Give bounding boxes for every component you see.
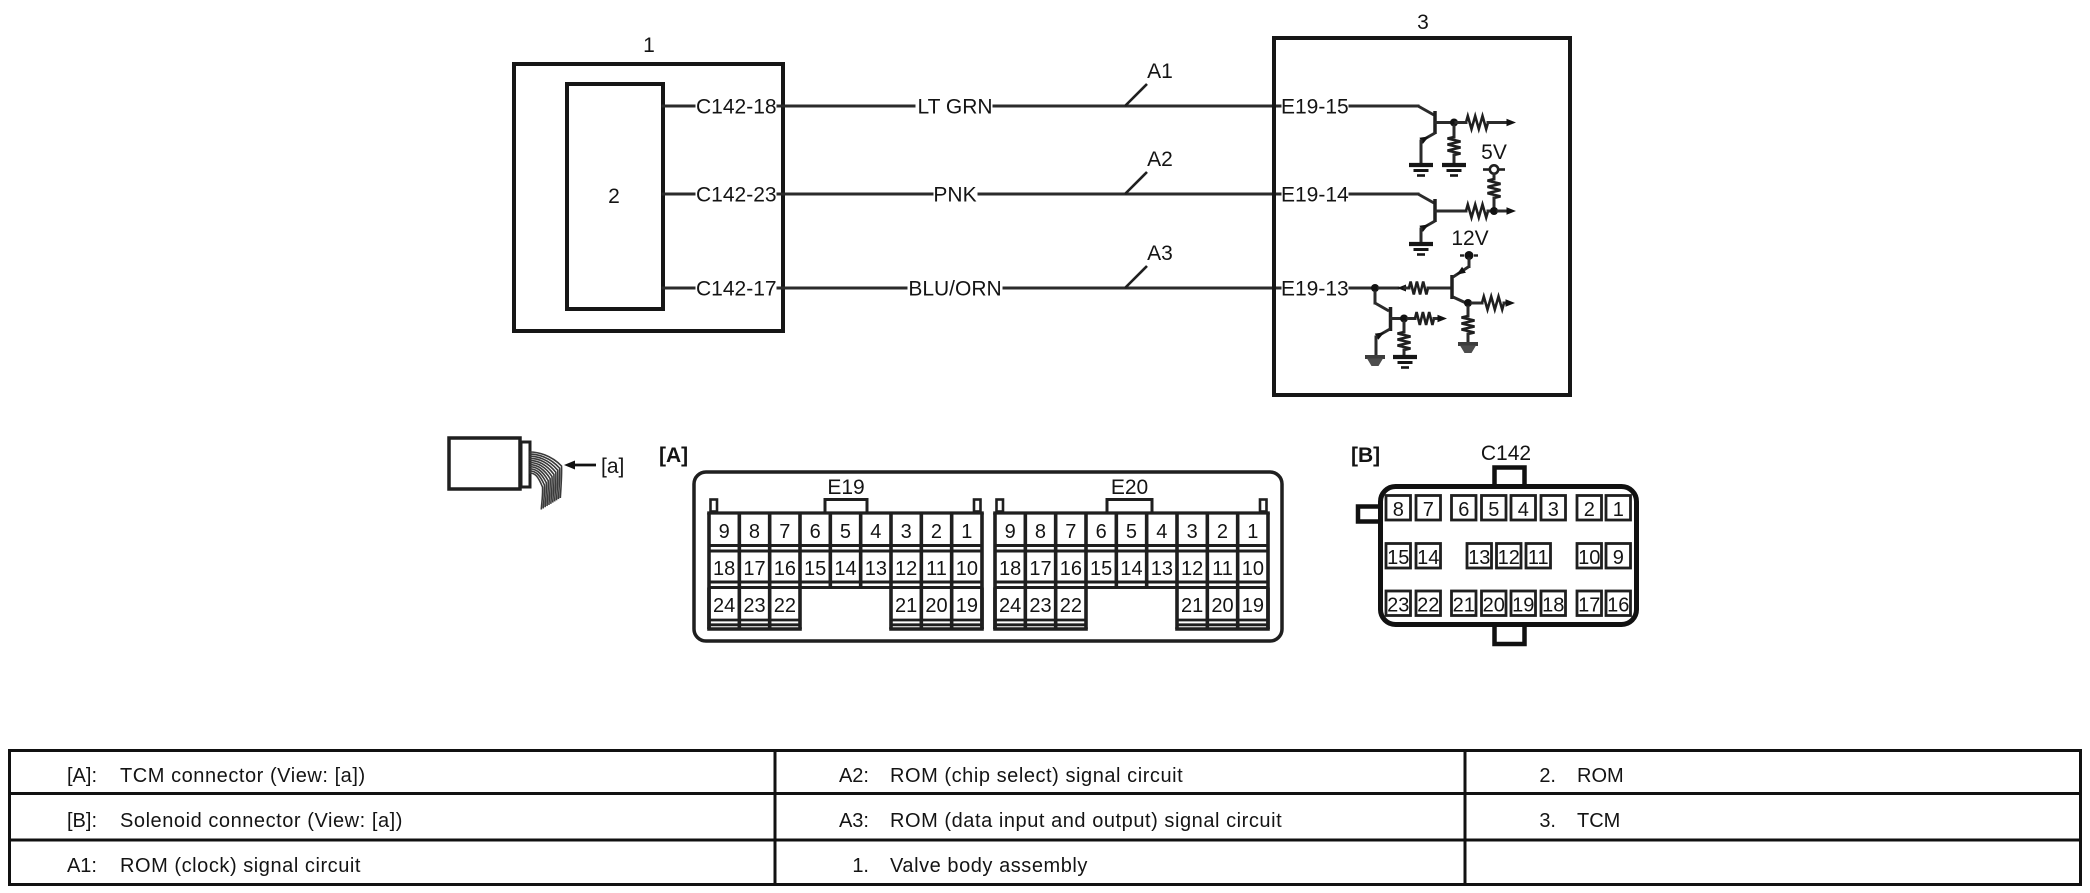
- C142 pin 8: [1386, 496, 1411, 521]
- svg-text:C142-23: C142-23: [696, 184, 777, 207]
- E19 row1 pin numbers: [719, 521, 973, 543]
- pin label C142-23: [696, 184, 777, 207]
- E19 row3 pin numbers: [713, 595, 978, 617]
- transistor Q4: [1375, 307, 1400, 340]
- svg-text:A2: A2: [1147, 148, 1173, 171]
- legend row 1 col 3: [1539, 765, 1623, 787]
- ground R2: [1442, 165, 1466, 176]
- circuit slash A1: [1125, 84, 1147, 106]
- resistor R6: [1472, 297, 1504, 310]
- E20 notch right: [1260, 500, 1267, 512]
- svg-text:PNK: PNK: [933, 184, 976, 207]
- svg-text:3: 3: [1417, 11, 1429, 34]
- node R4 output: [1488, 207, 1498, 215]
- C142 pin 23: [1386, 591, 1411, 616]
- svg-text:5: 5: [1488, 499, 1499, 521]
- wire R8 output arrow: [1434, 315, 1447, 322]
- svg-text:1: 1: [1247, 521, 1258, 543]
- svg-text:BLU/ORN: BLU/ORN: [908, 278, 1001, 301]
- ground Q2 emitter: [1409, 244, 1433, 255]
- label [B]: [1351, 444, 1380, 467]
- svg-text:A2:: A2:: [839, 765, 869, 787]
- svg-text:20: 20: [1483, 594, 1505, 616]
- arrow to [a]: [564, 461, 596, 470]
- wire junction to R5 with arrow: [1379, 285, 1409, 292]
- C142 pin 10: [1577, 544, 1602, 569]
- svg-text:5V: 5V: [1481, 141, 1507, 164]
- svg-text:TCM connector (View: [a]): TCM connector (View: [a]): [120, 765, 366, 787]
- 12V supply dot: [1460, 251, 1478, 260]
- wire bundle: [530, 452, 562, 510]
- svg-text:C142: C142: [1481, 442, 1531, 465]
- C142 bottom tab: [1495, 626, 1525, 644]
- legend row 2 col 1: [67, 810, 403, 832]
- C142 pin 4: [1511, 496, 1536, 521]
- wire 5V to R3: [1493, 174, 1496, 179]
- resistor R9: [1398, 332, 1411, 350]
- svg-text:14: 14: [834, 558, 856, 580]
- C142 pin 2: [1577, 496, 1602, 521]
- legend row 1 col 1: [67, 765, 366, 787]
- svg-text:9: 9: [1613, 547, 1624, 569]
- E20 row3 pin numbers: [999, 595, 1264, 617]
- svg-text:ROM (data input and output) si: ROM (data input and output) signal circu…: [890, 810, 1282, 832]
- svg-text:6: 6: [1458, 499, 1469, 521]
- svg-text:E19-15: E19-15: [1281, 96, 1349, 119]
- svg-text:12V: 12V: [1451, 227, 1488, 250]
- svg-text:1.: 1.: [852, 855, 869, 877]
- svg-text:19: 19: [1242, 595, 1264, 617]
- svg-text:9: 9: [1005, 521, 1016, 543]
- svg-text:22: 22: [1060, 595, 1082, 617]
- C142 left tab: [1358, 507, 1380, 522]
- svg-text:24: 24: [713, 595, 735, 617]
- junction node E19-13: [1371, 284, 1379, 292]
- wire Q3 collector to R7: [1467, 307, 1470, 316]
- svg-text:5: 5: [1126, 521, 1137, 543]
- label E19: [827, 476, 864, 499]
- label 2: [608, 185, 620, 208]
- C142 pin 16: [1606, 591, 1631, 616]
- wire E19-15 to Q1 base: [1350, 106, 1434, 115]
- svg-text:13: 13: [1468, 547, 1490, 569]
- E19 tab: [825, 500, 867, 514]
- C142 pin 5: [1482, 496, 1507, 521]
- wire R1 output arrow: [1488, 119, 1516, 126]
- pin label E19-15: [1281, 96, 1349, 119]
- wire R6 output arrow: [1504, 299, 1515, 307]
- E20 row1 pin numbers: [1005, 521, 1259, 543]
- E19 pin grid outline: [707, 513, 984, 629]
- svg-text:13: 13: [865, 558, 887, 580]
- svg-text:Solenoid connector (View: [a]): Solenoid connector (View: [a]): [120, 810, 403, 832]
- svg-text:3: 3: [901, 521, 912, 543]
- C142 pin 21: [1452, 591, 1477, 616]
- C142 pin 22: [1416, 591, 1441, 616]
- C142 pin 1: [1606, 496, 1631, 521]
- wire node output arrow: [1498, 207, 1516, 215]
- label [a]: [601, 455, 624, 478]
- svg-text:2: 2: [608, 185, 620, 208]
- svg-text:19: 19: [1512, 594, 1534, 616]
- E20 pin grid outline: [993, 513, 1270, 629]
- node Q3 collector: [1464, 299, 1472, 307]
- svg-text:3: 3: [1187, 521, 1198, 543]
- C142 pin 13: [1467, 544, 1492, 569]
- label C142: [1481, 442, 1531, 465]
- 5V supply terminal: [1483, 165, 1505, 173]
- wire R7 to ground: [1467, 334, 1470, 343]
- label 1: [643, 34, 655, 57]
- svg-text:4: 4: [1156, 521, 1167, 543]
- wire C142-18 to wire-color label: [778, 105, 914, 108]
- C142 pin 12: [1497, 544, 1522, 569]
- svg-text:4: 4: [870, 521, 881, 543]
- E19 notch right: [974, 500, 981, 512]
- wire node to R9: [1403, 322, 1406, 332]
- svg-text:17: 17: [743, 558, 765, 580]
- wire color label BLU/ORN: [908, 278, 1001, 301]
- label 3: [1417, 11, 1429, 34]
- E20 notch left: [997, 500, 1004, 512]
- svg-text:1: 1: [961, 521, 972, 543]
- svg-text:17: 17: [1029, 558, 1051, 580]
- svg-text:15: 15: [804, 558, 826, 580]
- svg-text:3.: 3.: [1539, 810, 1556, 832]
- resistor R3: [1488, 179, 1501, 198]
- legend row 1 col 2: [839, 765, 1183, 787]
- svg-text:13: 13: [1151, 558, 1173, 580]
- solenoid connector cap: [521, 442, 530, 487]
- circuit label A3: [1147, 242, 1173, 265]
- svg-text:8: 8: [1393, 499, 1404, 521]
- svg-text:[A]: [A]: [659, 444, 688, 467]
- node Q4 collector: [1400, 315, 1408, 323]
- svg-text:16: 16: [1060, 558, 1082, 580]
- svg-text:18: 18: [713, 558, 735, 580]
- legend row 3 col 1: [67, 855, 361, 877]
- legend row 3 col 2: [852, 855, 1088, 877]
- svg-text:6: 6: [810, 521, 821, 543]
- valve body assembly box 1: [514, 64, 783, 331]
- svg-text:23: 23: [1387, 594, 1409, 616]
- svg-text:23: 23: [1029, 595, 1051, 617]
- svg-text:E20: E20: [1111, 476, 1148, 499]
- transistor Q2: [1419, 199, 1466, 232]
- svg-text:2: 2: [931, 521, 942, 543]
- transistor Q1: [1419, 111, 1452, 144]
- wire Q1 emitter to ground: [1420, 141, 1423, 163]
- svg-text:ROM (clock) signal circuit: ROM (clock) signal circuit: [120, 855, 361, 877]
- C142 pin 14: [1416, 544, 1441, 569]
- wire junction to Q4 base: [1375, 292, 1389, 311]
- pin label C142-18: [696, 96, 777, 119]
- C142 pin 3: [1541, 496, 1566, 521]
- circuit slash A2: [1125, 172, 1147, 194]
- circuit slash A3: [1125, 266, 1147, 288]
- C142 top tab: [1495, 468, 1525, 486]
- E20 tab: [1107, 500, 1152, 514]
- svg-text:4: 4: [1518, 499, 1529, 521]
- svg-text:21: 21: [1181, 595, 1203, 617]
- wire C142-23 to wire-color label: [778, 193, 932, 196]
- ground R9: [1393, 357, 1417, 368]
- svg-text:TCM: TCM: [1577, 810, 1620, 832]
- svg-text:18: 18: [999, 558, 1021, 580]
- svg-text:24: 24: [999, 595, 1021, 617]
- wire C142-17 to wire-color label: [778, 287, 906, 290]
- svg-text:A1: A1: [1147, 60, 1173, 83]
- svg-text:Valve body assembly: Valve body assembly: [890, 855, 1088, 877]
- E19 row2 pin numbers: [713, 558, 978, 580]
- solenoid connector body: [449, 438, 520, 489]
- svg-text:16: 16: [1607, 594, 1629, 616]
- svg-text:5: 5: [840, 521, 851, 543]
- svg-text:14: 14: [1120, 558, 1142, 580]
- svg-text:11: 11: [1212, 558, 1233, 580]
- pin label E19-13: [1281, 278, 1349, 301]
- svg-text:E19-14: E19-14: [1281, 184, 1349, 207]
- label [A]: [659, 444, 688, 467]
- svg-text:15: 15: [1090, 558, 1112, 580]
- svg-text:[B]: [B]: [1351, 444, 1380, 467]
- svg-text:19: 19: [956, 595, 978, 617]
- svg-text:10: 10: [956, 558, 978, 580]
- solenoid connector housing C142: [1381, 487, 1637, 625]
- wire BLU/ORN to TCM: [1004, 287, 1280, 290]
- ground R7: [1458, 344, 1478, 353]
- svg-text:12: 12: [895, 558, 917, 580]
- legend row 2 col 3: [1539, 810, 1620, 832]
- C142 pin 11: [1526, 544, 1551, 569]
- circuit label A2: [1147, 148, 1173, 171]
- svg-text:ROM (chip select) signal circu: ROM (chip select) signal circuit: [890, 765, 1183, 787]
- svg-text:2: 2: [1584, 499, 1595, 521]
- resistor R2: [1448, 137, 1461, 155]
- svg-text:10: 10: [1578, 547, 1600, 569]
- ground Q4 emitter: [1365, 357, 1385, 366]
- wire Q2 emitter to ground: [1420, 229, 1423, 242]
- label 5V: [1481, 141, 1507, 164]
- svg-text:A3: A3: [1147, 242, 1173, 265]
- wire E19-14 to Q2 base: [1350, 194, 1434, 203]
- resistor R5: [1409, 282, 1428, 295]
- C142 pin 17: [1577, 591, 1602, 616]
- TCM connector housing: [694, 472, 1282, 641]
- svg-text:8: 8: [1035, 521, 1046, 543]
- E20 row2 pin numbers: [999, 558, 1264, 580]
- wire R5 to Q3 base: [1428, 287, 1451, 290]
- svg-text:20: 20: [1211, 595, 1233, 617]
- svg-text:C142-17: C142-17: [696, 278, 777, 301]
- C142 pin 18: [1541, 591, 1566, 616]
- svg-text:15: 15: [1387, 547, 1409, 569]
- ROM box 2: [567, 84, 663, 309]
- svg-text:11: 11: [926, 558, 947, 580]
- C142 pin 9: [1606, 544, 1631, 569]
- wire Q4 emitter to ground: [1375, 337, 1378, 355]
- svg-text:1: 1: [1613, 499, 1624, 521]
- svg-text:E19: E19: [827, 476, 864, 499]
- svg-text:17: 17: [1578, 594, 1600, 616]
- svg-text:16: 16: [774, 558, 796, 580]
- svg-text:2.: 2.: [1539, 765, 1556, 787]
- C142 pin 7: [1416, 496, 1441, 521]
- wire stub pin C142-17: [663, 287, 694, 290]
- wire stub pin C142-23: [663, 193, 694, 196]
- svg-text:A3:: A3:: [839, 810, 869, 832]
- legend table grid: [8, 749, 2082, 886]
- svg-text:18: 18: [1542, 594, 1564, 616]
- wire PNK to TCM: [979, 193, 1280, 196]
- svg-text:7: 7: [1423, 499, 1434, 521]
- svg-text:20: 20: [925, 595, 947, 617]
- label 12V: [1451, 227, 1488, 250]
- circuit label A1: [1147, 60, 1173, 83]
- wire R2 to ground: [1453, 155, 1456, 163]
- svg-text:12: 12: [1498, 547, 1520, 569]
- svg-text:1: 1: [643, 34, 655, 57]
- svg-text:22: 22: [1417, 594, 1439, 616]
- resistor R1: [1456, 116, 1488, 129]
- resistor R4: [1466, 205, 1488, 218]
- svg-text:ROM: ROM: [1577, 765, 1624, 787]
- svg-text:E19-13: E19-13: [1281, 278, 1349, 301]
- svg-text:6: 6: [1096, 521, 1107, 543]
- wire Q3 emitter to 12V: [1468, 259, 1471, 267]
- svg-text:A1:: A1:: [67, 855, 97, 877]
- ground Q1 emitter: [1409, 165, 1433, 176]
- C142 pin 15: [1386, 544, 1411, 569]
- svg-text:22: 22: [774, 595, 796, 617]
- label E20: [1111, 476, 1148, 499]
- svg-text:3: 3: [1548, 499, 1559, 521]
- svg-text:[B]:: [B]:: [67, 810, 97, 832]
- legend row 2 col 2: [839, 810, 1282, 832]
- svg-text:10: 10: [1242, 558, 1264, 580]
- svg-text:[a]: [a]: [601, 455, 624, 478]
- wire color label LT GRN: [917, 96, 992, 119]
- pin label C142-17: [696, 278, 777, 301]
- svg-text:14: 14: [1417, 547, 1439, 569]
- resistor R7: [1462, 316, 1475, 334]
- E19 notch left: [711, 500, 718, 512]
- svg-text:8: 8: [749, 521, 760, 543]
- node Q1 collector: [1450, 119, 1458, 127]
- svg-text:[A]:: [A]:: [67, 765, 97, 787]
- svg-text:23: 23: [743, 595, 765, 617]
- wire E19-13 to junction: [1350, 287, 1372, 290]
- svg-text:LT GRN: LT GRN: [917, 96, 992, 119]
- svg-text:C142-18: C142-18: [696, 96, 777, 119]
- svg-text:21: 21: [1453, 594, 1475, 616]
- C142 pin 19: [1511, 591, 1536, 616]
- wire LT GRN to TCM: [994, 105, 1280, 108]
- wire R9 to ground: [1403, 350, 1406, 355]
- svg-text:7: 7: [1065, 521, 1076, 543]
- svg-text:7: 7: [779, 521, 790, 543]
- svg-text:9: 9: [719, 521, 730, 543]
- wire node to R2: [1453, 126, 1456, 137]
- svg-text:12: 12: [1181, 558, 1203, 580]
- TCM box 3: [1274, 38, 1570, 395]
- svg-text:21: 21: [895, 595, 917, 617]
- svg-text:2: 2: [1217, 521, 1228, 543]
- resistor R8: [1408, 312, 1434, 325]
- wire stub pin C142-18: [663, 105, 694, 108]
- C142 pin 20: [1482, 591, 1507, 616]
- wire color label PNK: [933, 184, 976, 207]
- wire R3 to node: [1493, 198, 1496, 208]
- transistor Q3: [1452, 267, 1469, 304]
- pin label E19-14: [1281, 184, 1349, 207]
- svg-text:11: 11: [1528, 547, 1549, 569]
- C142 pin 6: [1452, 496, 1477, 521]
